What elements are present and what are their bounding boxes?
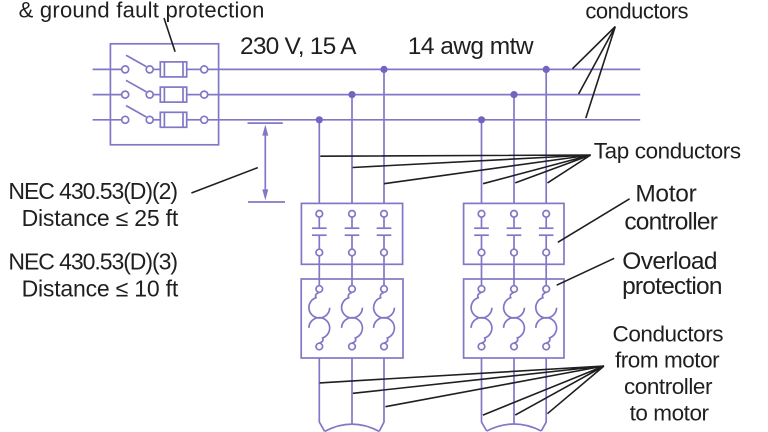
svg-text:Conductors: Conductors	[613, 321, 724, 346]
terminal circle pole3 out	[201, 116, 208, 123]
fuse F1 body	[160, 62, 186, 77]
motor M2 body arc	[487, 424, 542, 431]
motor controller U2 box (right)	[464, 203, 564, 264]
wire F2 out	[187, 94, 201, 96]
switch S1 pole terminal circles	[122, 66, 154, 73]
overload heater right col1	[471, 286, 492, 350]
leader NEC 430.53(D)(2)	[191, 168, 257, 193]
wire conductor L3 (bottom)	[208, 119, 641, 121]
svg-text:Overload: Overload	[622, 248, 717, 275]
contacts and heaters	[309, 211, 557, 350]
svg-text:Motor: Motor	[635, 181, 696, 208]
tap conductor wire right col1	[481, 120, 483, 204]
svg-text:Distance ≤ 10 ft: Distance ≤ 10 ft	[22, 275, 179, 301]
wire contact-to-heater left col1	[318, 256, 320, 286]
disconnect switch box	[110, 44, 218, 145]
svg-text:230 V, 15 A: 230 V, 15 A	[240, 33, 357, 60]
svg-text:Tap conductors: Tap conductors	[594, 138, 741, 163]
switch S3 blade	[126, 106, 146, 117]
wire contact-to-heater right col2	[513, 256, 515, 286]
contact K left col3	[377, 211, 392, 256]
junction dot L2/tap right	[510, 91, 517, 98]
terminal circle pole2 out	[201, 91, 208, 98]
switch S3 pole terminal circles	[122, 116, 154, 123]
contact K right col3	[539, 211, 554, 256]
overload relay OL2 box (right)	[464, 279, 564, 358]
tap conductor wire right col2	[513, 95, 515, 204]
motor M1 lead mid	[351, 358, 353, 424]
overload heater left col3	[374, 286, 395, 350]
svg-text:NEC 430.53(D)(3): NEC 430.53(D)(3)	[8, 248, 177, 274]
motor M2 lead mid	[513, 358, 515, 423]
tap conductor wire left col2	[351, 95, 353, 204]
svg-text:from motor: from motor	[615, 348, 720, 373]
tap conductor wire left col1	[318, 120, 320, 204]
motor controller U1 box (left)	[301, 203, 402, 264]
wire F3 out	[187, 119, 201, 121]
svg-text:& ground fault protection: & ground fault protection	[19, 0, 265, 23]
svg-text:controller: controller	[624, 209, 717, 236]
wire L1 feed (left stub into disconnect)	[93, 68, 122, 70]
wire S1-F1	[153, 68, 160, 70]
distance dimension arrow	[248, 123, 286, 202]
switch S2 pole terminal circles	[122, 91, 154, 98]
fuse F3 body	[160, 112, 186, 127]
motor M1 lead right	[379, 358, 384, 431]
junction dot L1/tap right	[543, 66, 550, 73]
contact K right col2	[507, 211, 522, 256]
junction dot L2/tap left	[348, 91, 355, 98]
svg-text:14 awg mtw: 14 awg mtw	[408, 33, 534, 60]
svg-text:NEC 430.53(D)(2): NEC 430.53(D)(2)	[8, 178, 177, 204]
wire contact-to-heater left col2	[351, 256, 353, 286]
fuse F2 body	[160, 87, 186, 102]
tap conductor wire left col3	[383, 69, 385, 203]
wire S3-F3	[153, 119, 160, 121]
wire contact-to-heater right col3	[545, 256, 547, 286]
motor M1 body arc	[325, 424, 380, 431]
wire S2-F2	[153, 94, 160, 96]
leader fan conductors to motor	[320, 366, 604, 415]
leader fan to conductors	[573, 27, 616, 119]
leader motor controller	[558, 199, 630, 243]
wire contact-to-heater left col3	[383, 256, 385, 286]
wire conductor L1 (top)	[208, 68, 641, 70]
overload heater left col1	[309, 286, 330, 350]
leader fan tap conductors	[320, 155, 590, 184]
wire conductor L2 (middle)	[208, 94, 641, 96]
contact K right col1	[474, 211, 489, 256]
wire L3 feed	[93, 119, 122, 121]
motor M1 lead left	[319, 358, 324, 431]
svg-text:to motor: to motor	[630, 401, 710, 426]
junction dot L3/tap left	[316, 116, 323, 123]
overload relay OL1 box (left)	[301, 279, 403, 358]
tap conductor wire right col3	[545, 69, 547, 203]
contact K left col2	[345, 211, 360, 256]
leader overload protection	[557, 258, 615, 285]
terminal circle pole1 out	[201, 66, 208, 73]
motor M2 lead right	[541, 358, 546, 431]
overload heater left col2	[342, 286, 363, 350]
wire L2 feed	[93, 94, 122, 96]
switch S1 blade	[126, 55, 146, 66]
overload heater right col2	[504, 286, 525, 350]
motor M2 lead left	[482, 358, 487, 431]
junction dot L3/tap right	[478, 116, 485, 123]
black annotation lines	[164, 18, 630, 415]
leader to ground fault protection box	[164, 18, 175, 52]
svg-text:conductors: conductors	[585, 0, 688, 24]
wire F1 out	[187, 68, 201, 70]
contact K left col1	[312, 211, 327, 256]
junction dot L1/tap left	[380, 66, 387, 73]
wire contact-to-heater right col1	[481, 256, 483, 286]
svg-text:controller: controller	[624, 374, 713, 399]
overload heater right col3	[536, 286, 557, 350]
switch S2 blade	[126, 80, 146, 91]
svg-text:Distance ≤ 25 ft: Distance ≤ 25 ft	[22, 205, 179, 231]
svg-text:protection: protection	[622, 273, 722, 300]
